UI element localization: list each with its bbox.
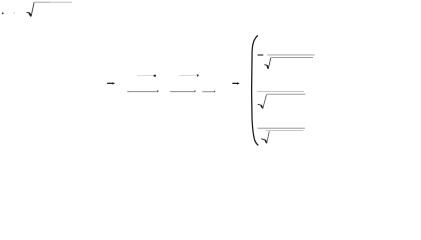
fraction F2 numerator end flag: [197, 74, 199, 77]
row 1 minus sign: [258, 54, 264, 56]
node dot (faint equals): [14, 12, 15, 13]
row 1 radical sign: [264, 58, 270, 69]
row 2 fraction bar: [257, 91, 304, 93]
row 3 fraction bar: [258, 127, 305, 129]
fraction F1 denominator bar: [128, 90, 158, 92]
fraction F1 numerator bar: [137, 75, 153, 77]
row 3 radicand vinculum: [266, 130, 304, 132]
radical sign (top-left sqrt): [27, 2, 35, 16]
row 3 radical sign: [261, 131, 269, 143]
denominator extension segment: [202, 91, 215, 93]
fraction F2 numerator bar: [179, 74, 196, 76]
arrow B (small minus-arrow): [232, 82, 239, 84]
row 1 fraction bar: [267, 54, 314, 56]
row 2 radicand vinculum: [266, 93, 305, 95]
row 1 radicand vinculum: [271, 57, 313, 59]
fraction F2 denominator bar: [170, 90, 195, 92]
arrow A (small minus-arrow): [107, 82, 115, 84]
vinculum of top-left sqrt: [34, 1, 72, 3]
big left parenthesis: [252, 35, 259, 145]
fraction F1 numerator end dot: [154, 75, 156, 77]
row 2 radical sign: [258, 95, 267, 109]
node dot d: [2, 13, 4, 15]
